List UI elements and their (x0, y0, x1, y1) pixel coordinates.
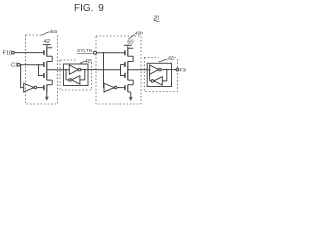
svg-text:SYLTN: SYLTN (77, 48, 93, 54)
svg-text:60: 60 (127, 40, 134, 46)
svg-text:66: 66 (168, 56, 174, 62)
svg-text:C1: C1 (11, 63, 18, 69)
svg-text:42: 42 (44, 39, 50, 45)
svg-text:40: 40 (85, 59, 91, 65)
svg-text:40a: 40a (49, 29, 57, 35)
svg-text:40b: 40b (135, 31, 143, 37)
svg-text:FIG. 9: FIG. 9 (74, 3, 104, 14)
svg-text:F10: F10 (3, 51, 13, 57)
svg-text:F30: F30 (180, 68, 186, 74)
